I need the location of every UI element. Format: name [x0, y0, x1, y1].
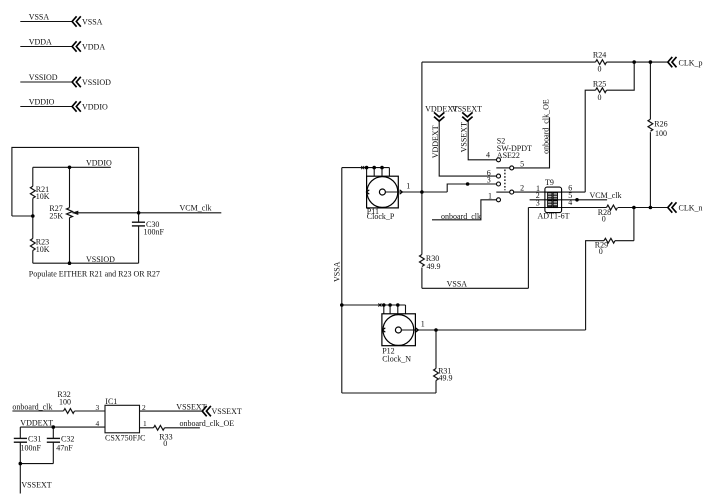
svg-text:R26: R26: [654, 119, 667, 128]
svg-text:VSSIOD: VSSIOD: [82, 78, 111, 87]
svg-text:1: 1: [143, 419, 147, 428]
svg-text:10K: 10K: [36, 192, 50, 201]
svg-text:VDDA: VDDA: [82, 42, 105, 51]
svg-text:VSSA: VSSA: [447, 280, 468, 289]
svg-text:ASE22: ASE22: [497, 151, 520, 160]
svg-text:2: 2: [142, 403, 146, 412]
svg-text:R24: R24: [593, 51, 606, 60]
svg-text:49.9: 49.9: [439, 373, 453, 382]
svg-text:100: 100: [59, 397, 71, 406]
svg-text:4: 4: [568, 198, 572, 207]
svg-text:VSSIOD: VSSIOD: [86, 255, 115, 264]
svg-text:VDDIO: VDDIO: [82, 102, 108, 111]
svg-text:4: 4: [486, 150, 490, 159]
svg-text:VSSEXT: VSSEXT: [460, 122, 469, 152]
svg-text:VSSIOD: VSSIOD: [29, 73, 58, 82]
svg-text:1: 1: [406, 182, 410, 191]
svg-text:VSSEXT: VSSEXT: [212, 407, 242, 416]
svg-text:C32: C32: [61, 435, 74, 444]
svg-text:VDDEXT: VDDEXT: [431, 125, 440, 158]
svg-text:VDDIO: VDDIO: [86, 158, 112, 167]
svg-text:VSSEXT: VSSEXT: [452, 105, 482, 114]
svg-text:IC1: IC1: [105, 397, 117, 406]
svg-text:VSSA: VSSA: [333, 261, 342, 282]
svg-text:0: 0: [598, 93, 602, 102]
svg-text:0: 0: [599, 247, 603, 256]
svg-text:Populate EITHER R21 and R23 OR: Populate EITHER R21 and R23 OR R27: [29, 269, 160, 278]
svg-text:VSSA: VSSA: [29, 12, 50, 21]
svg-text:5: 5: [520, 160, 524, 169]
svg-text:47nF: 47nF: [56, 444, 73, 453]
svg-text:VCM_clk: VCM_clk: [180, 203, 212, 212]
svg-text:VSSEXT: VSSEXT: [176, 402, 206, 411]
svg-text:4: 4: [96, 419, 100, 428]
svg-text:0: 0: [602, 214, 606, 223]
svg-text:2: 2: [520, 183, 524, 192]
svg-text:Clock_P: Clock_P: [367, 212, 395, 221]
svg-text:ADT1-6T: ADT1-6T: [538, 211, 570, 220]
svg-text:10K: 10K: [36, 245, 50, 254]
svg-text:onboard_clk: onboard_clk: [12, 402, 52, 411]
svg-text:1: 1: [488, 191, 492, 200]
svg-text:VSSEXT: VSSEXT: [21, 480, 51, 489]
svg-text:VDDA: VDDA: [29, 37, 52, 46]
svg-text:VSSA: VSSA: [82, 17, 103, 26]
svg-text:R25: R25: [593, 79, 606, 88]
svg-text:25K: 25K: [49, 212, 63, 221]
svg-text:CLK_p: CLK_p: [679, 58, 703, 67]
svg-text:1: 1: [421, 320, 425, 329]
svg-text:0: 0: [163, 439, 167, 448]
svg-text:onboard_clk: onboard_clk: [441, 212, 481, 221]
svg-text:3: 3: [96, 403, 100, 412]
svg-text:onboard_clk_OE: onboard_clk_OE: [542, 99, 551, 154]
svg-text:T9: T9: [545, 178, 554, 187]
svg-text:3: 3: [487, 176, 491, 185]
svg-text:VDDEXT: VDDEXT: [20, 419, 53, 428]
svg-text:VDDIO: VDDIO: [29, 97, 55, 106]
svg-text:100nF: 100nF: [21, 444, 42, 453]
svg-text:Clock_N: Clock_N: [382, 355, 411, 364]
svg-text:100: 100: [655, 129, 667, 138]
svg-text:0: 0: [598, 65, 602, 74]
svg-text:CSX750FJC: CSX750FJC: [105, 434, 145, 443]
svg-text:VCM_clk: VCM_clk: [590, 191, 622, 200]
svg-text:onboard_clk_OE: onboard_clk_OE: [180, 419, 235, 428]
svg-text:49.9: 49.9: [427, 262, 441, 271]
svg-text:3: 3: [536, 198, 540, 207]
svg-text:C31: C31: [28, 435, 41, 444]
svg-text:CLK_n: CLK_n: [679, 204, 703, 213]
svg-text:100nF: 100nF: [144, 228, 165, 237]
